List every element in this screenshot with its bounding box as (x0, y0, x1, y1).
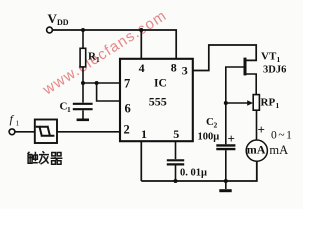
label C1 (60, 101, 72, 115)
wire trigger to pin 2 (57, 131, 120, 133)
wire pin 3 to transistor drain (193, 45, 256, 71)
svg-text:3DJ6: 3DJ6 (263, 65, 286, 76)
svg-text:7: 7 (124, 77, 130, 91)
IC 555 box (120, 59, 193, 141)
svg-text:3: 3 (182, 64, 188, 78)
node VDD terminal (47, 27, 53, 33)
label RP1 (261, 97, 280, 111)
hysteresis icon (37, 127, 54, 136)
trigger box (Schmitt) (35, 120, 57, 144)
node junction C2 on rail (224, 179, 228, 183)
meter mA (246, 140, 267, 161)
capacitor C1 (73, 104, 93, 119)
svg-text:1: 1 (16, 119, 20, 128)
svg-text:8: 8 (171, 61, 177, 75)
svg-text:4: 4 (139, 61, 145, 75)
arrowhead wiper (247, 100, 253, 106)
resistor R1 (80, 48, 86, 67)
node junction R1/C1/pin7 (81, 81, 85, 85)
svg-text:RP: RP (261, 97, 276, 109)
wire pin 1 drop (140, 141, 142, 181)
svg-text:555: 555 (149, 95, 167, 109)
wire R1 top lead (82, 30, 84, 48)
svg-text:V: V (48, 11, 58, 26)
svg-text:100μ: 100μ (198, 132, 220, 143)
node f1 terminal (9, 129, 15, 135)
wire C1 top lead (82, 83, 84, 103)
label VT1 (261, 51, 281, 65)
wire pin 7 (83, 82, 120, 84)
wire pin 6 branch (97, 83, 120, 101)
wire wiper to RP1 (226, 102, 248, 104)
svg-text:5: 5 (173, 127, 179, 141)
ground bar under C1 (77, 119, 89, 122)
wire R1 bottom lead (82, 67, 84, 83)
svg-text:1: 1 (67, 105, 71, 114)
svg-text:IC: IC (154, 78, 167, 90)
wire VDD rail to pin 8 (53, 30, 177, 59)
wire f1 to trigger box (15, 131, 35, 133)
wire VT1 source to RP1 (246, 74, 256, 95)
svg-text:1: 1 (141, 127, 147, 141)
svg-text:DD: DD (57, 18, 69, 27)
label VDD (48, 11, 69, 27)
capacitor 0.01u (167, 160, 184, 181)
svg-text:0. 01μ: 0. 01μ (180, 168, 207, 179)
wire meter to rail (141, 161, 256, 181)
node junction 0.01u on rail (174, 179, 178, 183)
svg-text:+: + (228, 131, 235, 146)
potentiometer RP1 (253, 95, 259, 111)
svg-text:1: 1 (276, 101, 280, 110)
svg-text:VT: VT (261, 51, 277, 63)
svg-text:1: 1 (277, 55, 281, 64)
svg-text:2: 2 (124, 123, 130, 137)
wire pin 4 drop (140, 30, 142, 59)
svg-text:mA: mA (269, 143, 288, 157)
label f1 (10, 112, 20, 128)
wire RP1 to meter (256, 110, 258, 140)
svg-text:6: 6 (125, 102, 131, 116)
wire pin 5 drop (175, 141, 177, 159)
wire VT1 gate down to C2/RP junction (226, 67, 244, 144)
ground (219, 181, 231, 191)
label C2 (206, 116, 218, 130)
node junction pin4 on rail (139, 28, 143, 32)
transistor VT1 channel bar (244, 58, 247, 76)
svg-text:+: + (258, 122, 265, 137)
node junction gate line / wiper (224, 101, 228, 105)
svg-text:mA: mA (247, 143, 266, 157)
capacitor C2 (216, 145, 235, 181)
svg-text:0~1: 0~1 (271, 129, 294, 141)
svg-text:1: 1 (96, 55, 100, 64)
node junction VDD/R1 (81, 28, 85, 32)
label R1 (88, 51, 100, 65)
label 触发器 (drawn strokes) (28, 151, 63, 164)
node junction pin6 branch (95, 81, 99, 85)
svg-text:2: 2 (214, 121, 218, 130)
